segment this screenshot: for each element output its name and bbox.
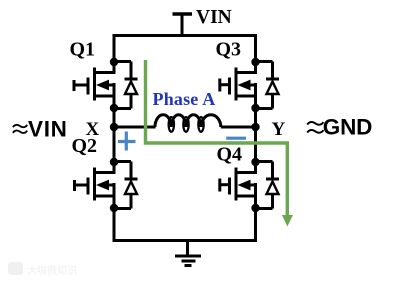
polarity plus sign at node X <box>118 132 136 151</box>
transistor Q2 (with body diode) <box>75 158 138 212</box>
wire top rail from Q1 drain branch to Q3 drain branch <box>114 36 256 63</box>
svg-text:GND: GND <box>323 115 372 140</box>
svg-text:Y: Y <box>272 119 286 140</box>
svg-text:VIN: VIN <box>196 7 232 28</box>
polarity minus sign at node Y <box>226 137 246 140</box>
label ≈VIN (node X average voltage): approx sign <box>13 125 27 133</box>
wire Q1 source to Q2 drain (left branch through node X) <box>113 108 116 162</box>
transistor Q1 (with body diode) <box>74 58 138 112</box>
svg-text:X: X <box>86 119 100 140</box>
svg-text:Q4: Q4 <box>217 144 243 166</box>
svg-text:大咖微知识: 大咖微知识 <box>27 264 77 277</box>
transistor Q3 (with body diode) <box>220 58 280 112</box>
wire Q3 source to Q4 drain (right branch through node Y) <box>254 108 257 162</box>
node X junction dot <box>110 123 118 131</box>
svg-text:VIN: VIN <box>28 117 68 142</box>
svg-text:Q3: Q3 <box>216 39 242 61</box>
wire bottom rail from Q2 source to Q4 source <box>114 208 256 241</box>
wire inductor to node Y <box>221 126 256 129</box>
transistor Q4 (with body diode) <box>220 158 280 212</box>
label ≈GND (node Y average voltage): approx sign <box>307 122 323 133</box>
node Y junction dot <box>251 123 259 131</box>
VIN supply terminal <box>173 14 193 36</box>
ground <box>175 241 201 266</box>
svg-text:Phase A: Phase A <box>153 89 216 109</box>
current path (green arrow): down from inductor left, across under inductor, down through Q4 side <box>146 60 293 227</box>
svg-text:Q1: Q1 <box>70 39 96 61</box>
wire node X to inductor <box>114 126 156 129</box>
watermark (faint) <box>8 262 77 277</box>
inductor L Phase A <box>155 115 221 132</box>
